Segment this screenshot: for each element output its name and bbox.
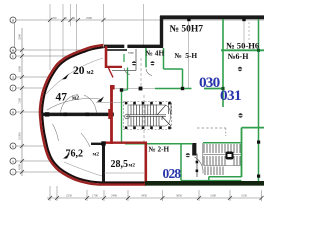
- green WC wall x=146: [145, 48, 147, 68]
- column square on top wall x=189: [187, 18, 190, 21]
- grid vertical line x=50: [49, 4, 51, 70]
- axis line y=146: [16, 145, 46, 147]
- staircase 2 flight divider: [204, 154, 241, 156]
- svg-text:1700: 1700: [92, 194, 99, 198]
- stair2 left thin wall x=197: [196, 154, 198, 178]
- column square right wall y=142: [257, 141, 260, 144]
- svg-text:№6-Н: №6-Н: [228, 52, 250, 61]
- column square on top wall x=244: [242, 18, 245, 21]
- green WC wall x=163.5: [163, 48, 165, 69]
- grid vertical line x=244: [243, 19, 245, 50]
- door gap in top wall: [124, 45, 127, 49]
- svg-text:90: 90: [64, 16, 68, 20]
- red door jamb: [110, 85, 115, 90]
- WC door arcs under y=67: [124, 68, 130, 75]
- left dimension line x=22: [21, 28, 23, 176]
- svg-text:76,2: 76,2: [66, 149, 84, 160]
- junction square (223,88.5): [221, 87, 224, 90]
- door arc at stair right: [195, 157, 204, 174]
- bottom dimension line y=198: [47, 197, 262, 199]
- svg-text:Г: Г: [12, 86, 14, 90]
- svg-text:3100: 3100: [210, 194, 217, 198]
- staircase 1 landing curve: [165, 105, 171, 126]
- ventilation symbol room 6N: [238, 67, 242, 71]
- axis line y=56: [16, 55, 68, 57]
- grid vertical dashed x=141 corridor: [140, 58, 142, 88]
- axis circle (13,88): [10, 85, 16, 91]
- green wall y=88.5 segment a: [155, 88, 192, 90]
- top wall lower horizontal: [104, 45, 163, 48]
- top wall upper horizontal: [160, 15, 264, 19]
- svg-text:Е: Е: [12, 54, 14, 58]
- inner wall y=113.5: [42, 113, 113, 117]
- red door leaf: [109, 68, 114, 78]
- green wall y=50 under 50-H6: [221, 49, 264, 51]
- bottom dimension extension lines: [50, 186, 262, 201]
- right wall (green upper part): [258, 19, 260, 181]
- left dimension numbers: [18, 34, 22, 171]
- staircase 1 column squares bottom row: [125, 126, 171, 129]
- grid vertical line x=63: [62, 4, 64, 60]
- green stair2 bottom y=176.7: [209, 176, 242, 178]
- svg-text:закр: закр: [128, 51, 134, 55]
- ventilation symbol room 5N: [150, 61, 154, 65]
- axis line y=172: [16, 171, 65, 173]
- axis circle (13,146): [10, 143, 16, 149]
- staircase 1 outline: [124, 102, 172, 130]
- axis circle (13,56): [10, 53, 16, 59]
- green wall y=69: [164, 68, 183, 70]
- leader flag for 20 m2: [62, 74, 69, 80]
- left dimension ticks: [20, 48, 24, 174]
- green corridor jog y=90: [122, 89, 128, 91]
- green corridor wall x=127.5 upper: [127, 68, 129, 91]
- staircase 1 left stringer: [127, 105, 129, 126]
- black wall stub y=143.8 left: [91, 143, 104, 145]
- svg-text:47: 47: [56, 92, 68, 104]
- staircase 1 circle symbol: [125, 114, 130, 119]
- green stair2 top y=142.8: [203, 142, 241, 144]
- dashed vertical x=249: [248, 22, 250, 49]
- axis circle letters: [11, 18, 15, 174]
- leader flag for 76,2 m2: [63, 153, 70, 159]
- svg-text:3240: 3240: [18, 34, 22, 41]
- red pilaster bump: [108, 109, 111, 119]
- door swing arcs above wall y=113: [61, 95, 79, 113]
- door swing arc below wall (room 76,2): [53, 124, 59, 141]
- grid vertical dashed x=144 through stair: [143, 95, 145, 143]
- square at (121.5,90): [120, 88, 123, 91]
- svg-text:№ 50Н7: № 50Н7: [170, 25, 204, 35]
- staircase 1 treads upper: [131, 103, 171, 115]
- top dimension ticks on y=20: [48, 18, 106, 22]
- dashed stub x=225.8: [225, 128, 227, 136]
- red wall vertical x=111.5: [110, 87, 113, 144]
- svg-text:м2: м2: [129, 163, 136, 169]
- thin line y=102.5 left of stair: [96, 102, 124, 104]
- green wall y=88.5 segment b: [204, 88, 223, 90]
- column square right wall y=176: [257, 175, 260, 178]
- dashed partition y=128: [197, 127, 226, 129]
- staircase 1 upper stringers: [128, 104, 165, 106]
- svg-text:20: 20: [73, 65, 85, 77]
- axis line y=112: [16, 111, 40, 113]
- svg-text:3450: 3450: [141, 194, 148, 198]
- closet thin wall x=136: [135, 49, 137, 71]
- svg-text:2250: 2250: [66, 194, 73, 198]
- top dimension numbers: [52, 16, 93, 20]
- green wall room 50-H6 left x=223: [222, 19, 224, 107]
- corridor thin line y=88.5: [113, 88, 155, 90]
- junction square (182.5,88.5): [181, 87, 184, 90]
- junction square (103.5,143.5): [101, 141, 105, 145]
- grid vertical line x=143.5: [143, 4, 145, 45]
- axis circle (13,50): [10, 47, 16, 53]
- thin line y=173 in room 28,5: [104, 172, 145, 174]
- junction square (258.5,50): [257, 49, 260, 52]
- red wall vertical upper x=106: [105, 46, 108, 68]
- svg-text:№ 4Н: № 4Н: [145, 48, 165, 57]
- thin arc lower room: [64, 162, 104, 177]
- svg-text:2400: 2400: [111, 194, 118, 198]
- green corridor wall x=122.5 upper small: [123, 54, 125, 62]
- leader flag near red wall (47 m2): [97, 97, 104, 103]
- svg-text:3150: 3150: [241, 194, 248, 198]
- axis circle (13,112): [10, 109, 16, 115]
- red wall horizontal y=67: [105, 66, 122, 68]
- green wall y=143.5 corridor bottom: [125, 143, 192, 145]
- green stair2 right x=241.5: [241, 128, 243, 177]
- axis circle (13,172): [10, 169, 16, 175]
- svg-text:6300: 6300: [18, 66, 22, 73]
- svg-text:3650: 3650: [176, 194, 183, 198]
- svg-text:250: 250: [52, 16, 57, 20]
- svg-text:80: 80: [72, 16, 76, 20]
- top wall step vertical: [160, 16, 163, 48]
- staircase 2 left boundary: [202, 143, 204, 166]
- ventilation symbol room 4N: [132, 61, 136, 65]
- svg-text:м2: м2: [93, 152, 100, 158]
- big curved facade wall black inner: [42, 47, 146, 182]
- svg-text:м2: м2: [87, 70, 94, 76]
- closet thin wall y=70.5: [112, 70, 136, 72]
- red wall vertical x=145.8: [145, 143, 148, 184]
- top wall lower inner edge: [106, 49, 127, 51]
- bottom facade wall hatched dark: [145, 181, 264, 186]
- green wall y=127.6 right: [242, 127, 265, 129]
- black wall stub (194,143-155): [192, 143, 196, 156]
- grid vertical line x=103.5: [103, 4, 105, 45]
- staircase 2 arrow block: [226, 152, 234, 160]
- svg-text:7200: 7200: [18, 98, 22, 105]
- staircase 1 treads lower: [131, 117, 171, 127]
- svg-text:28,5: 28,5: [111, 159, 129, 170]
- staircase 1 column squares top row: [125, 102, 171, 105]
- staircase 2 treads lower flight: [204, 156, 240, 166]
- black wall vertical x=103.5: [102, 143, 105, 183]
- svg-text:№ 2-Н: № 2-Н: [148, 146, 170, 154]
- axis line y=161: [16, 160, 53, 162]
- svg-text:м2: м2: [72, 96, 79, 102]
- axis circle top (13,20): [10, 17, 16, 23]
- svg-text:10300: 10300: [18, 132, 22, 140]
- axis circle (13,161): [10, 158, 16, 164]
- ventilation symbol room 031: [238, 113, 242, 117]
- svg-text:2560: 2560: [86, 16, 93, 20]
- green stub x=208.8: [208, 177, 210, 182]
- staircase 2 treads upper flight: [204, 144, 240, 153]
- grid vertical line x=78: [76, 4, 78, 52]
- wall squares on y=113.5: [45, 112, 49, 116]
- grid vertical line x=188.5: [188, 19, 190, 88]
- svg-text:Б: Б: [12, 144, 14, 148]
- ventilation symbol near stair 2: [186, 153, 190, 157]
- green corridor wall x=121.5: [121, 90, 123, 144]
- svg-text:№ 5-Н: № 5-Н: [174, 51, 198, 60]
- axis vertical short x=14.5: [14, 23, 16, 47]
- axis line y=20 from circle to right: [16, 19, 264, 21]
- axis line y=50: [16, 49, 82, 51]
- grid vertical line x=70.5: [70, 4, 72, 26]
- axis circle (13,77): [10, 74, 16, 80]
- stair2 node squares: [196, 161, 199, 164]
- svg-text:028: 028: [163, 166, 182, 181]
- svg-text:4500: 4500: [18, 164, 22, 171]
- svg-text:1: 1: [12, 170, 14, 174]
- bottom dimension ticks: [48, 196, 264, 200]
- bottom dimension numbers: [66, 194, 248, 198]
- inner face thin arc of curved wall: [45, 58, 103, 95]
- svg-text:№ 50-Н6: № 50-Н6: [226, 41, 260, 51]
- svg-text:031: 031: [220, 87, 241, 104]
- corridor node square (140.5,88.5): [139, 87, 143, 91]
- svg-text:030: 030: [199, 74, 221, 91]
- bottom wall hatch highlight: [181, 179, 242, 181]
- green wall x=182.5: [182, 69, 184, 89]
- big curved facade wall red outer: [40, 45, 146, 185]
- axis line y=88: [16, 87, 43, 89]
- axis line y=77: [16, 76, 50, 78]
- red wall horizontal y=142.7: [103, 141, 147, 143]
- green wall x=181 (room 028 right): [180, 144, 182, 181]
- leader line 47 m2: [47, 98, 100, 110]
